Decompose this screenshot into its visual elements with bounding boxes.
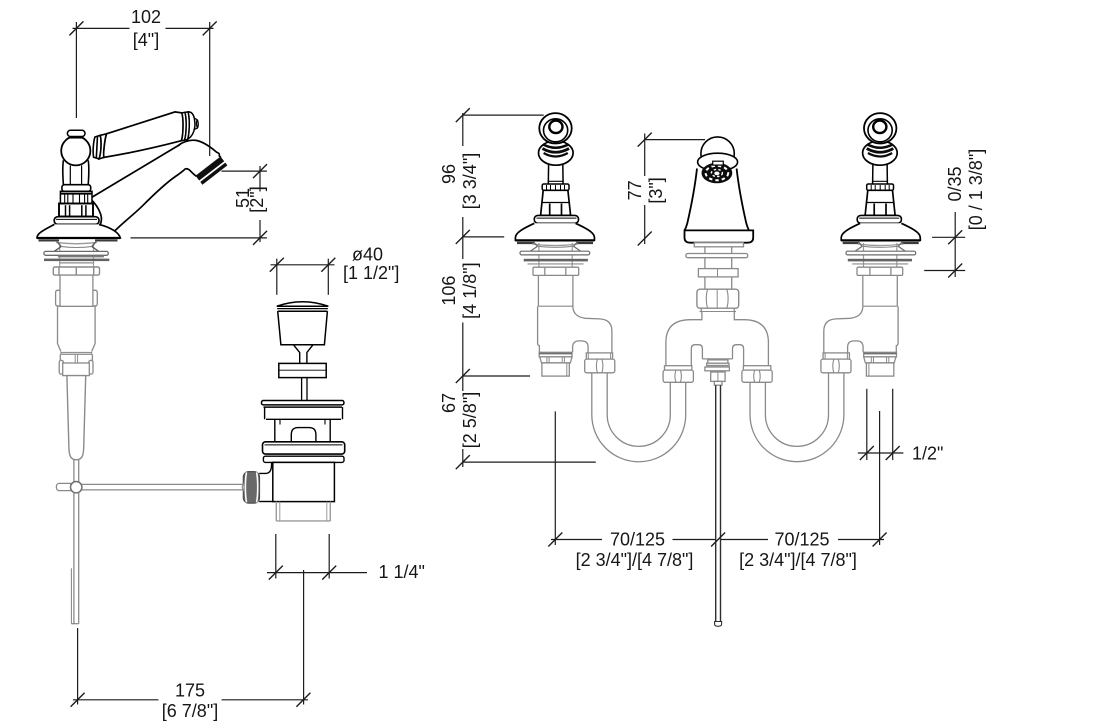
svg-text:[3 3/4"]: [3 3/4"] <box>460 153 480 209</box>
spout shank neck to tee <box>700 308 737 311</box>
dimension ø40 [1 1/2"] <box>270 258 336 295</box>
drain: tailpiece <box>276 502 330 521</box>
spout locknut <box>698 269 738 277</box>
svg-text:[1 1/2"]: [1 1/2"] <box>343 263 399 283</box>
pop-up rod left stub <box>56 483 70 490</box>
left tap: tail tube <box>67 376 86 460</box>
svg-text:106: 106 <box>439 276 459 306</box>
left tap: bell base <box>37 224 120 238</box>
left tap: screw cap on ball <box>67 130 85 137</box>
left valve of mixer <box>515 113 614 376</box>
tee right union <box>742 366 772 383</box>
svg-text:70/125: 70/125 <box>610 530 665 550</box>
drain: washer under collar <box>263 456 344 462</box>
pop-up rod lower <box>71 493 78 624</box>
spout underside curve <box>109 169 197 238</box>
dimension 1/2" tail <box>858 389 904 460</box>
spout dome top <box>701 137 734 170</box>
drain: top collar nut <box>263 442 345 454</box>
svg-text:[2 3/4"]/[4 7/8"]: [2 3/4"]/[4 7/8"] <box>576 550 694 570</box>
left tap: washer plate <box>44 251 108 255</box>
svg-text:[4"]: [4"] <box>133 30 159 50</box>
left U pipe <box>592 373 686 462</box>
spout washer plate <box>686 254 748 258</box>
tee centre outlet <box>705 360 730 385</box>
svg-text:1 1/4": 1 1/4" <box>379 562 425 582</box>
drain: crossbar <box>279 363 326 377</box>
spout body <box>685 169 749 231</box>
dimension 1 1/4" (waste tail) <box>267 534 367 580</box>
svg-text:[2"]: [2"] <box>247 186 267 212</box>
dimension 0/35 [0 / 1 3/8"] right <box>924 212 965 278</box>
svg-text:1/2": 1/2" <box>912 444 943 464</box>
left tap: lever end cap <box>181 112 198 141</box>
drain: waste body <box>273 462 335 501</box>
drain: plug cup <box>278 311 328 345</box>
spout hex nut <box>697 289 739 308</box>
left tap: cone washer <box>55 242 99 251</box>
svg-text:67: 67 <box>439 393 459 413</box>
pop-up horizontal rod <box>82 484 244 490</box>
dimension 102 [4"] top <box>69 21 216 156</box>
left tap: compression nut with tabs <box>59 354 93 375</box>
svg-text:0/35: 0/35 <box>945 166 965 201</box>
svg-text:[2 3/4"]/[4 7/8"]: [2 3/4"]/[4 7/8"] <box>739 550 857 570</box>
left tap: shading under bell <box>39 240 118 243</box>
left tap: hex nut <box>59 204 93 217</box>
drain: plug stem <box>294 345 314 364</box>
drain: lift rod <box>302 378 307 401</box>
svg-text:[3"]: [3"] <box>646 177 666 203</box>
right U pipe <box>750 373 844 462</box>
svg-text:[4 1/8"]: [4 1/8"] <box>460 262 480 318</box>
left tap: collar band <box>54 217 99 225</box>
drain: upper ring <box>265 407 343 419</box>
left tap: shank cylinder with side clips <box>56 275 98 306</box>
drain: side arm <box>259 462 273 501</box>
svg-text:[0 / 1 3/8"]: [0 / 1 3/8"] <box>966 149 986 230</box>
pop-up rod upper <box>74 460 79 482</box>
left tap: backnut <box>53 267 99 275</box>
drain: top flange <box>262 401 344 408</box>
left tap: lower shank block <box>58 306 96 354</box>
svg-text:[2 5/8"]: [2 5/8"] <box>460 392 480 448</box>
left tap: lever ferrule rings at ball end <box>93 134 106 159</box>
spout top straight edge <box>92 145 181 198</box>
left tap: spline ring <box>60 191 92 203</box>
dimension 70/125 x2 bottom <box>548 411 886 547</box>
drain assembly: plug knob dome <box>277 302 329 312</box>
pop-up pivot ball <box>71 482 82 493</box>
dimension 175 [6 7/8"] bottom <box>71 570 311 707</box>
dimension 51 [2"] right of spout <box>131 164 268 245</box>
svg-text:102: 102 <box>131 7 161 27</box>
left tap: spout body <box>90 140 220 237</box>
left tap: dark washer bands <box>44 256 109 263</box>
left tap: ball handle base <box>61 136 90 165</box>
left tap: cap plate <box>62 185 91 192</box>
dimension column 96/106/67 <box>456 108 596 469</box>
svg-text:ø40: ø40 <box>352 245 383 265</box>
spout head dome <box>178 140 220 157</box>
spout brim collar <box>698 153 738 171</box>
svg-text:77: 77 <box>625 180 645 200</box>
centre tee manifold <box>666 312 769 367</box>
svg-text:70/125: 70/125 <box>774 530 829 550</box>
drain: knurled gland (dark) <box>242 472 259 504</box>
spout shank 2 <box>705 277 732 289</box>
svg-text:96: 96 <box>439 164 459 184</box>
left tap: threaded rod sides under deck <box>60 243 94 268</box>
drain: slotted body with overflow arch <box>275 419 330 442</box>
dimension 77 [3"] spout <box>638 133 705 246</box>
spout base plinth <box>685 230 754 242</box>
spout shank <box>705 258 732 269</box>
spout shank below deck <box>705 247 732 254</box>
spout deck plate <box>694 243 743 247</box>
left tap: lever handle shaft <box>104 112 183 157</box>
pop-up rod of mixer <box>715 385 722 626</box>
svg-text:175: 175 <box>175 681 205 701</box>
tee left union <box>663 366 693 383</box>
body right contour down to bell <box>90 199 101 227</box>
left tap: neck below ball <box>63 160 89 184</box>
right valve of mixer (mirrored) <box>821 113 920 376</box>
spout aerator face <box>702 161 733 183</box>
svg-text:[6 7/8"]: [6 7/8"] <box>162 701 218 721</box>
left tap: nozzle aerator bands <box>196 157 228 185</box>
